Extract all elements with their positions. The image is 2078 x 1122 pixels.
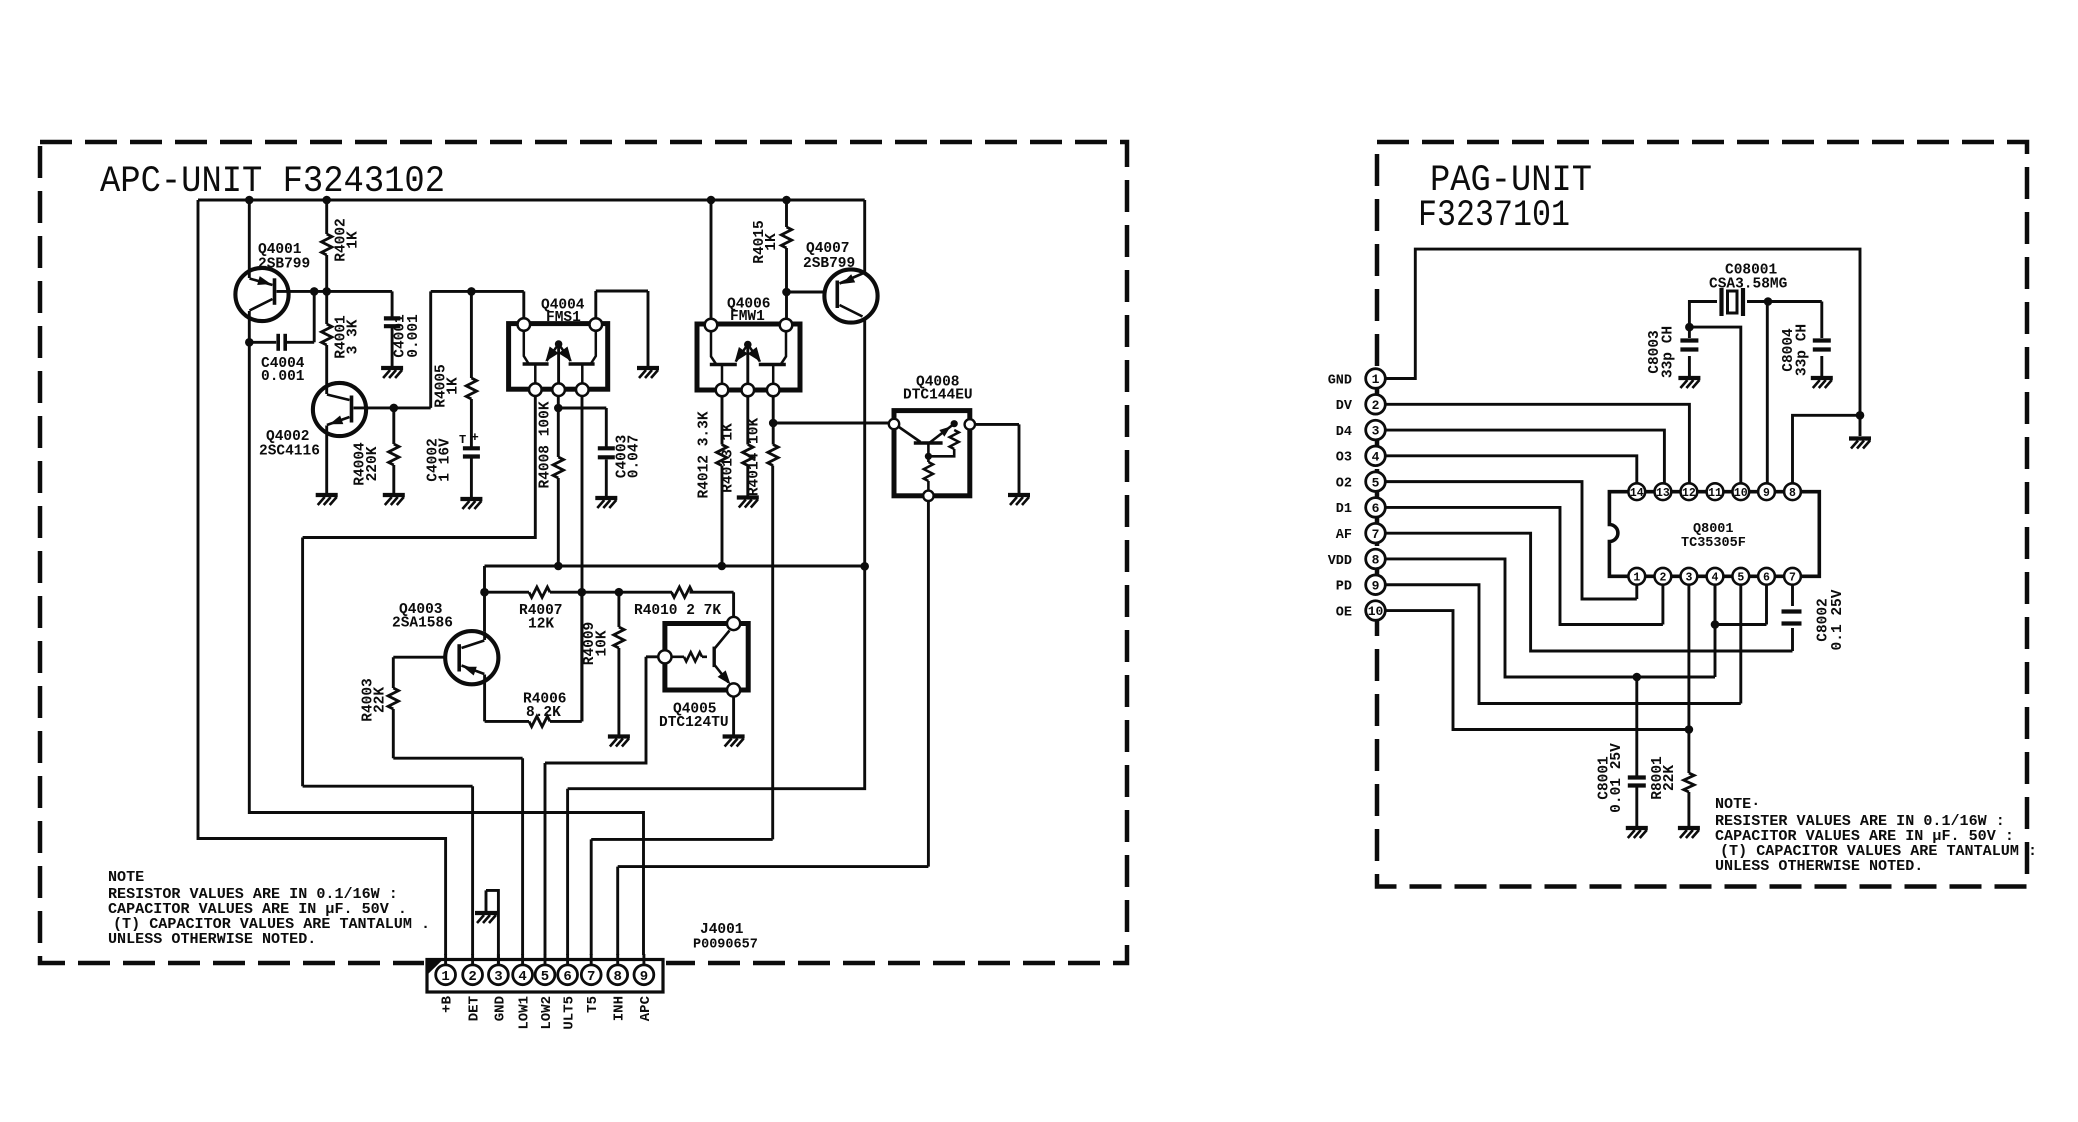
- svg-text:7: 7: [587, 969, 595, 985]
- svg-text:220K: 220K: [365, 446, 381, 481]
- svg-text:2SB799: 2SB799: [258, 257, 310, 273]
- svg-text:R4012 3.3K: R4012 3.3K: [697, 411, 713, 498]
- svg-text:GND: GND: [1328, 373, 1352, 388]
- svg-text:FMW1: FMW1: [730, 309, 765, 325]
- svg-text:PD: PD: [1336, 580, 1352, 595]
- svg-text:8: 8: [613, 969, 621, 985]
- svg-text:8: 8: [1789, 487, 1796, 500]
- svg-text:0.01 25V: 0.01 25V: [1609, 743, 1625, 813]
- svg-text:1K: 1K: [446, 377, 462, 395]
- svg-text:1 16V: 1 16V: [438, 438, 454, 482]
- svg-text:1K: 1K: [764, 233, 780, 251]
- svg-text:Q8001: Q8001: [1693, 522, 1734, 537]
- svg-text:OE: OE: [1336, 605, 1352, 620]
- svg-text:TC35305F: TC35305F: [1681, 536, 1746, 551]
- svg-text:8: 8: [1372, 553, 1380, 568]
- svg-text:2: 2: [1372, 398, 1380, 413]
- svg-text:+B: +B: [440, 995, 456, 1012]
- svg-text:12: 12: [1682, 487, 1696, 500]
- svg-text:6: 6: [563, 969, 571, 985]
- svg-text:5: 5: [1737, 571, 1744, 584]
- svg-text:O3: O3: [1336, 451, 1352, 466]
- svg-text:LOW1: LOW1: [517, 996, 533, 1030]
- svg-text:NOTE·: NOTE·: [1715, 795, 1760, 813]
- svg-text:AF: AF: [1336, 528, 1352, 543]
- svg-text:FMS1: FMS1: [546, 310, 581, 326]
- svg-text:LOW2: LOW2: [539, 996, 555, 1030]
- svg-text:1: 1: [1633, 571, 1640, 584]
- svg-text:10: 10: [1368, 604, 1384, 619]
- svg-text:0.001: 0.001: [261, 369, 305, 385]
- svg-text:8.2K: 8.2K: [526, 705, 561, 721]
- svg-text:1: 1: [441, 969, 449, 985]
- svg-text:DET: DET: [467, 996, 483, 1021]
- svg-text:UNLESS OTHERWISE NOTED.: UNLESS OTHERWISE NOTED.: [108, 930, 316, 948]
- svg-text:4: 4: [1372, 450, 1380, 465]
- svg-text:0.1 25V: 0.1 25V: [1830, 589, 1846, 650]
- svg-text:22K: 22K: [373, 687, 389, 713]
- svg-text:3: 3: [1685, 571, 1692, 584]
- svg-text:5: 5: [541, 969, 549, 985]
- svg-text:2: 2: [468, 969, 476, 985]
- svg-text:J4001: J4001: [700, 922, 744, 938]
- svg-text:Q4007: Q4007: [806, 241, 850, 257]
- svg-text:DTC144EU: DTC144EU: [903, 388, 973, 404]
- svg-text:GND: GND: [492, 996, 508, 1021]
- svg-text:3: 3: [1372, 424, 1380, 439]
- svg-text:APC: APC: [638, 995, 654, 1021]
- svg-text:33p CH: 33p CH: [1795, 324, 1811, 376]
- svg-text:3 3K: 3 3K: [346, 319, 362, 354]
- svg-text:R4010 2 7K: R4010 2 7K: [634, 603, 721, 619]
- svg-text:13: 13: [1656, 487, 1670, 500]
- svg-text:ULT5: ULT5: [562, 996, 578, 1030]
- svg-text:2SC4116: 2SC4116: [259, 444, 320, 460]
- svg-text:9: 9: [1372, 578, 1380, 593]
- svg-text:9: 9: [1763, 487, 1770, 500]
- svg-text:0.001: 0.001: [406, 314, 422, 358]
- svg-text:14: 14: [1630, 487, 1644, 500]
- svg-text:5: 5: [1372, 475, 1380, 490]
- svg-text:9: 9: [640, 969, 648, 985]
- svg-text:3: 3: [494, 969, 502, 985]
- svg-text:+: +: [471, 430, 479, 445]
- svg-text:2SA1586: 2SA1586: [392, 616, 453, 632]
- svg-text:0.047: 0.047: [627, 435, 643, 479]
- svg-text:NOTE: NOTE: [108, 868, 144, 886]
- svg-text:1K: 1K: [346, 231, 362, 249]
- svg-text:T5: T5: [585, 996, 601, 1013]
- svg-text:1: 1: [1372, 372, 1380, 387]
- svg-text:6: 6: [1372, 501, 1380, 516]
- svg-text:6: 6: [1763, 571, 1770, 584]
- svg-text:D4: D4: [1336, 425, 1352, 440]
- svg-text:2: 2: [1659, 571, 1666, 584]
- svg-text:DTC124TU: DTC124TU: [659, 715, 729, 731]
- svg-text:P0090657: P0090657: [693, 938, 758, 953]
- svg-text:R4013 1K: R4013 1K: [721, 423, 737, 493]
- svg-text:O2: O2: [1336, 476, 1352, 491]
- svg-text:DV: DV: [1336, 399, 1353, 414]
- svg-text:CSA3.58MG: CSA3.58MG: [1709, 277, 1787, 293]
- svg-text:APC-UNIT F3243102: APC-UNIT F3243102: [100, 161, 445, 203]
- svg-text:D1: D1: [1336, 502, 1352, 517]
- svg-text:UNLESS OTHERWISE NOTED.: UNLESS OTHERWISE NOTED.: [1715, 857, 1923, 875]
- svg-text:10K: 10K: [595, 630, 611, 656]
- svg-text:11: 11: [1708, 487, 1722, 500]
- svg-text:7: 7: [1372, 527, 1380, 542]
- svg-text:12K: 12K: [528, 617, 554, 633]
- svg-text:R4014 10K: R4014 10K: [747, 418, 763, 497]
- svg-text:VDD: VDD: [1328, 554, 1352, 569]
- svg-text:10: 10: [1734, 487, 1748, 500]
- svg-text:T: T: [459, 433, 466, 447]
- svg-text:2SB799: 2SB799: [803, 256, 855, 272]
- svg-text:22K: 22K: [1662, 765, 1678, 791]
- svg-text:4: 4: [518, 969, 526, 985]
- svg-text:33p CH: 33p CH: [1661, 326, 1677, 378]
- svg-text:4: 4: [1712, 571, 1719, 584]
- svg-text:R4008 100K: R4008 100K: [537, 401, 553, 488]
- svg-text:7: 7: [1789, 571, 1796, 584]
- svg-text:INH: INH: [612, 996, 628, 1021]
- svg-text:F3237101: F3237101: [1418, 195, 1570, 237]
